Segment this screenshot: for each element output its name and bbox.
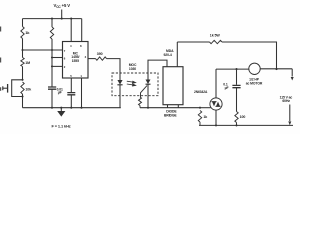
- pin numbers: [64, 44, 87, 78]
- wire detector top to bridge: [148, 60, 167, 73]
- wire: bus down to R4: [51, 19, 53, 27]
- wire R4 down through junctions: [51, 39, 53, 87]
- svg-text:1k: 1k: [203, 115, 207, 119]
- svg-text:ac MOTOR: ac MOTOR: [246, 82, 263, 86]
- node: dot pin5 col bottom: [70, 107, 72, 109]
- node: dot colB y66.4: [51, 65, 53, 67]
- svg-text:1k 5W: 1k 5W: [210, 34, 221, 38]
- wire triac bottom: [215, 110, 217, 125]
- node: dot top of pushbutton bypass: [21, 79, 23, 81]
- LED D1: [119, 73, 121, 80]
- svg-text:F = 1.1 kHz: F = 1.1 kHz: [52, 124, 71, 129]
- wire resistor to right corner: [222, 42, 277, 69]
- resistor R1 1k: [21, 27, 24, 39]
- svg-text:BRIDGE: BRIDGE: [164, 114, 177, 118]
- wire R2 down: [22, 67, 24, 80]
- label 115 V ac 60Hz: [280, 95, 293, 103]
- wire triac top: [215, 69, 217, 98]
- diode bridge box: [163, 67, 183, 105]
- pushbutton S1 terminal: [2, 86, 4, 90]
- resistor R4: [50, 27, 53, 39]
- optocoupler U2 dashed box: [112, 73, 158, 96]
- resistor 1k gate: [198, 111, 201, 123]
- node: dot snubber bottom: [235, 124, 237, 126]
- label MOC 1030: [129, 63, 137, 71]
- node: dot triac bottom: [215, 124, 217, 126]
- wire: bottom pin 1 to rail: [81, 78, 83, 108]
- wire cap to resistor: [236, 88, 238, 112]
- svg-text:100: 100: [240, 115, 246, 119]
- bottom left ground rail: [23, 107, 121, 109]
- wire: stub to IC pin 6: [52, 57, 63, 59]
- photo-triac detector: [147, 73, 149, 80]
- resistor R2 100: [22, 50, 24, 58]
- top AC bus wire: [177, 41, 209, 43]
- svg-text:µF: µF: [58, 91, 62, 95]
- svg-text:60Hz: 60Hz: [282, 99, 290, 103]
- capacitor C2 plates: [67, 93, 75, 95]
- node: dot bottom of pushbutton bypass: [21, 95, 23, 97]
- Vcc feed tick: [61, 10, 63, 19]
- node: dot detector bottom: [147, 107, 149, 109]
- resistor 390: [96, 57, 107, 60]
- triac triangles: [212, 102, 220, 107]
- label 0.1 uF: [223, 82, 228, 90]
- pushbutton actuator bar: [7, 84, 9, 93]
- top supply bus wire: [23, 18, 82, 20]
- svg-text:2N6342A: 2N6342A: [194, 90, 208, 94]
- wire C1 to bottom rail: [51, 89, 53, 108]
- svg-text:1555: 1555: [72, 59, 79, 63]
- node: dot gnd stem: [60, 107, 62, 109]
- wire C2 to bottom rail: [70, 95, 72, 108]
- wire: bottom pin 5: [70, 78, 72, 92]
- capacitor C1 plates: [48, 87, 56, 89]
- svg-text:920-4: 920-4: [164, 53, 172, 57]
- wire: IC pin3 out: [88, 58, 96, 60]
- node: dot gate junction: [199, 107, 201, 109]
- svg-text:10k: 10k: [25, 87, 31, 91]
- gate rail wire: [140, 107, 200, 109]
- svg-text:µF: µF: [225, 86, 229, 90]
- resistor 1k 5W: [210, 40, 223, 43]
- ground symbol: [60, 108, 62, 111]
- wire AC source bottom + arrow: [289, 105, 291, 122]
- node: dot right corner on motor line: [275, 68, 277, 70]
- wire bridge bottoms to gate rail: [168, 105, 179, 108]
- wire bridge top right to bus: [176, 42, 178, 67]
- triac Q1 circle: [210, 98, 222, 110]
- label MDA 920-4: [164, 49, 175, 57]
- node: dot snubber top: [235, 68, 237, 70]
- node: dot pin1 bottom: [80, 107, 82, 109]
- left edge scan artifacts: [0, 27, 1, 91]
- junction dots on supply bus: [51, 18, 72, 20]
- light coupling arrows: [127, 81, 136, 86]
- svg-text:390: 390: [97, 52, 103, 56]
- resistor R3 10k: [21, 82, 24, 94]
- bottom AC rail: [199, 124, 293, 126]
- wire y50 to IC pin 7: [23, 49, 63, 51]
- gate resistor of MOC: [141, 86, 148, 97]
- node: dot colB y50: [51, 49, 53, 51]
- pushbutton lead: [3, 87, 8, 89]
- wire columnA to bottom rail: [22, 94, 24, 108]
- label 1/2 HP ac MOTOR: [246, 77, 263, 85]
- node: junction dot columnA y50: [21, 49, 23, 51]
- label DIODE BRIDGE: [164, 110, 177, 118]
- wire gate to triac: [200, 107, 211, 109]
- resistor 100 snubber: [235, 112, 238, 123]
- svg-text:1030: 1030: [129, 67, 136, 71]
- IC text: [71, 52, 79, 63]
- wire right drop + arrow: [291, 69, 293, 77]
- motor M1 circle: [249, 63, 260, 74]
- pushbutton contacts bracket: [12, 80, 23, 97]
- capacitor 0.1uF plates: [232, 85, 240, 87]
- wire detector below box: [147, 96, 149, 108]
- op IC U1 MC1455/1555 box: [63, 42, 89, 79]
- wire R1 to junction: [22, 39, 24, 51]
- wire LED cathode below box to rail: [119, 96, 121, 108]
- node: dot colB y57.5: [51, 56, 53, 58]
- wire: bus corner down to R1: [22, 19, 24, 27]
- wire motor to right: [260, 68, 292, 70]
- wire: stub to IC pin 2: [52, 65, 63, 67]
- svg-text:1M: 1M: [25, 61, 30, 65]
- snubber wire top: [236, 69, 238, 85]
- wire: top pin 8: [81, 19, 83, 42]
- wire to MOC LED: [107, 59, 121, 73]
- wire: top pin 4: [70, 19, 72, 42]
- motor line wire: [216, 68, 249, 70]
- node: dot C1 bottom: [51, 107, 53, 109]
- svg-text:VCC +5 V: VCC +5 V: [54, 3, 71, 9]
